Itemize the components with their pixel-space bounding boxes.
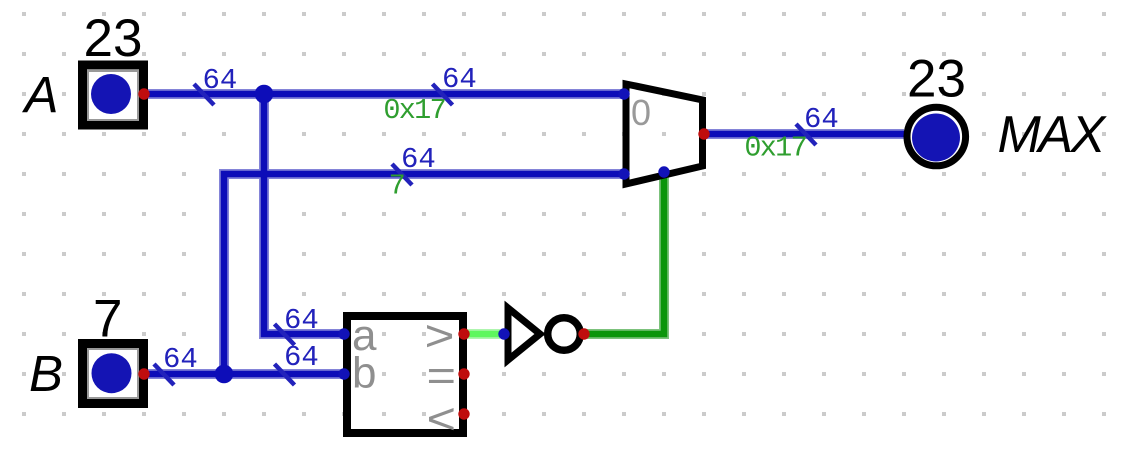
svg-text:<: < bbox=[427, 395, 457, 444]
svg-text:23: 23 bbox=[907, 50, 966, 109]
svg-text:0x17: 0x17 bbox=[744, 132, 806, 165]
svg-text:MAX: MAX bbox=[998, 106, 1108, 164]
svg-text:64: 64 bbox=[804, 103, 839, 136]
svg-text:7: 7 bbox=[389, 170, 404, 203]
svg-text:0x17: 0x17 bbox=[383, 94, 445, 127]
svg-text:7: 7 bbox=[93, 290, 122, 349]
svg-text:A: A bbox=[22, 67, 59, 124]
svg-text:64: 64 bbox=[284, 341, 319, 374]
svg-text:64: 64 bbox=[163, 343, 198, 376]
svg-text:64: 64 bbox=[203, 64, 238, 97]
svg-text:64: 64 bbox=[284, 304, 319, 337]
svg-text:B: B bbox=[29, 345, 63, 402]
svg-text:64: 64 bbox=[442, 63, 477, 96]
svg-text:=: = bbox=[427, 352, 457, 401]
svg-text:b: b bbox=[352, 349, 376, 398]
svg-text:23: 23 bbox=[84, 9, 143, 68]
svg-text:64: 64 bbox=[401, 143, 436, 176]
svg-text:0: 0 bbox=[631, 92, 651, 133]
